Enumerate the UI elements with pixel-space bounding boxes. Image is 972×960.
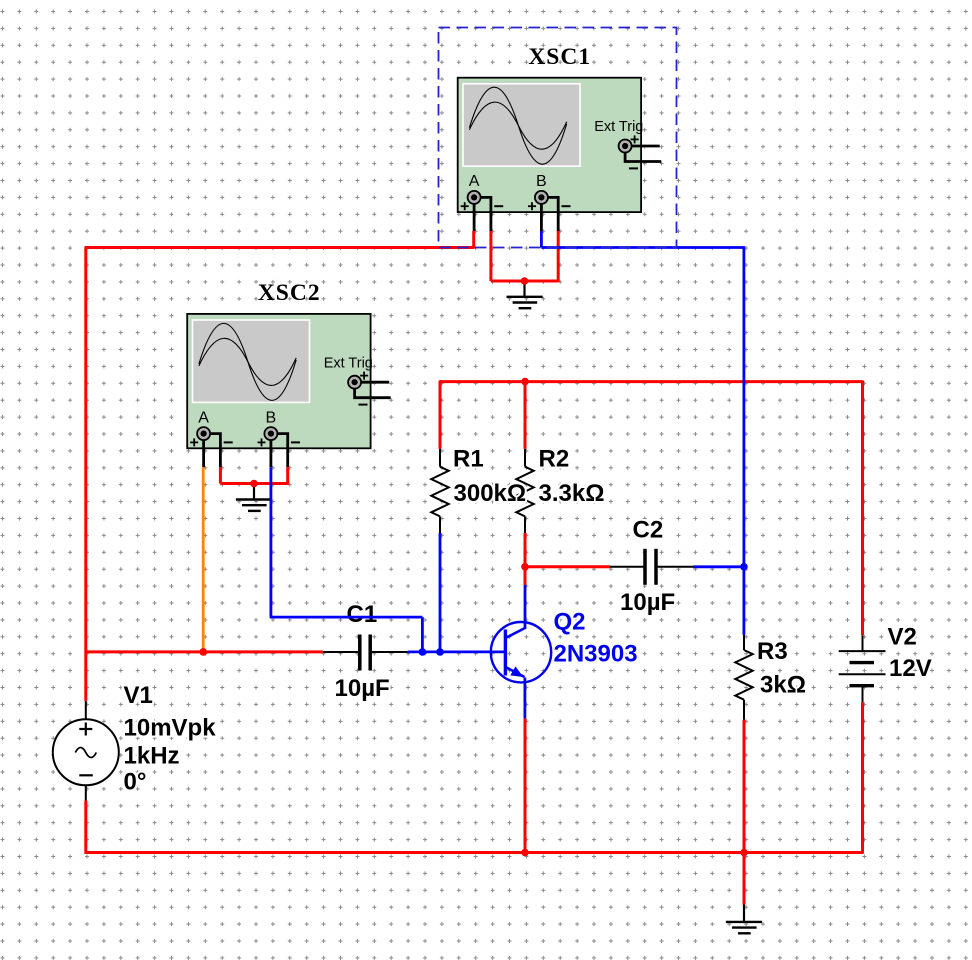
svg-text:V1: V1 [124,682,153,709]
wire XSC2 B to base run [270,616,423,619]
wire XSC1 A- drop [489,231,492,281]
wire VCC to V2+ [861,380,864,635]
wire collector node down [524,567,527,585]
wire collector node to C2 [525,565,610,568]
ground below XSC1 [507,281,543,308]
wire input node to C1 [86,650,323,653]
svg-text:1kHz: 1kHz [124,743,180,770]
battery V2 [839,635,886,702]
oscilloscope XSC2 body [187,314,370,448]
oscilloscope XSC1 channel B pin [528,173,571,231]
ac voltage source V1 [53,701,119,801]
wire XSC1 B+ drop [540,231,543,248]
wire collector lead [524,585,527,629]
wire XSC2 B+ drop [269,467,272,617]
wire bottom ground rail [85,851,863,854]
wire V2- down [861,702,864,853]
svg-text:B: B [536,173,547,190]
wire XSC2 A- drop [219,467,222,483]
wire XSC1 B- drop [557,231,560,282]
junction base node left [419,648,427,656]
wire VCC to R2 [524,382,527,449]
oscilloscope XSC2 Ext Trig pin [348,372,391,405]
resistor R2 [516,449,533,533]
svg-text:A: A [469,173,480,190]
svg-text:10µF: 10µF [620,589,675,616]
wire R3 bottom to ground rail [743,720,746,853]
svg-text:C2: C2 [633,517,664,544]
resistor R3 [735,635,752,720]
wire output to XSC1 B [541,246,744,249]
wire XSC2 ground link [220,482,287,485]
wire V1+ up left side [84,248,87,701]
wire XSC1 A+ drop [472,231,475,249]
oscilloscope XSC1 Ext Trig pin [619,135,662,168]
wire VCC rail [440,380,863,383]
wire R2 bottom to collector node [524,533,527,567]
wire VCC to R1 [439,380,442,448]
svg-text:0°: 0° [124,769,147,796]
transistor Q2 [491,622,551,682]
svg-text:XSC2: XSC2 [258,280,321,306]
svg-text:300kΩ: 300kΩ [454,480,527,507]
svg-text:V2: V2 [888,624,917,651]
svg-text:R3: R3 [757,638,788,665]
oscilloscope XSC2 channel A pin [190,409,233,467]
svg-text:2N3903: 2N3903 [554,641,638,668]
junction collector node [521,563,529,571]
svg-text:10µF: 10µF [335,675,390,702]
svg-text:Ext Trig: Ext Trig [324,355,373,371]
svg-text:R1: R1 [453,446,484,473]
oscilloscope XSC2 screen [192,319,311,403]
ground below XSC2 [236,484,272,511]
svg-text:C1: C1 [347,601,378,628]
junction VCC/R2 node [521,378,529,386]
wire C2 to output node [693,565,744,568]
oscilloscope XSC1 screen [462,83,581,167]
wire XSC2 A+ to input node (orange) [202,467,205,652]
svg-text:A: A [198,409,209,426]
svg-text:Ext Trig: Ext Trig [594,119,643,135]
wire emitter to ground rail [524,719,527,853]
selection box around XSC1 [439,28,677,248]
capacitor C2 [610,549,693,585]
junction emitter/ground rail [521,849,529,857]
svg-text:R2: R2 [539,446,570,473]
svg-text:XSC1: XSC1 [528,44,591,70]
wire R1 bottom to base node [439,533,442,652]
wire XSC1 ground link [491,280,558,283]
wire V1- down [84,801,87,854]
wire XSC2 B- drop [286,467,289,485]
oscilloscope XSC1 border [458,78,641,212]
svg-text:B: B [266,409,277,426]
svg-text:3kΩ: 3kΩ [760,672,806,699]
oscilloscope XSC2 channel B pin [258,409,301,467]
svg-text:10mVpk: 10mVpk [124,715,217,742]
wire top rail to XSC1 A+ [85,246,474,249]
oscilloscope XSC2 border [187,314,370,448]
svg-text:12V: 12V [889,655,932,682]
resistor R1 [431,449,448,533]
capacitor C1 [323,635,408,671]
svg-text:3.3kΩ: 3.3kΩ [539,480,605,507]
wire down to base node [421,617,424,652]
junction output node [740,563,748,571]
wire output node up [743,246,746,567]
junction R3/ground rail [740,849,748,857]
svg-text:Q2: Q2 [554,609,586,636]
wire output node to R3 [743,567,746,635]
junction XSC2 ground node [250,480,258,488]
wire base node to Q2 base [408,651,505,654]
ground bottom right [726,905,762,934]
wire ground rail to ground symbol [743,853,746,905]
junction XSC1 ground node [521,277,529,285]
oscilloscope XSC1 body [458,78,641,212]
junction base node right [436,648,444,656]
junction input node (orange tap) [199,648,207,656]
oscilloscope XSC1 channel A pin [461,173,504,231]
wire emitter lead [524,678,527,719]
